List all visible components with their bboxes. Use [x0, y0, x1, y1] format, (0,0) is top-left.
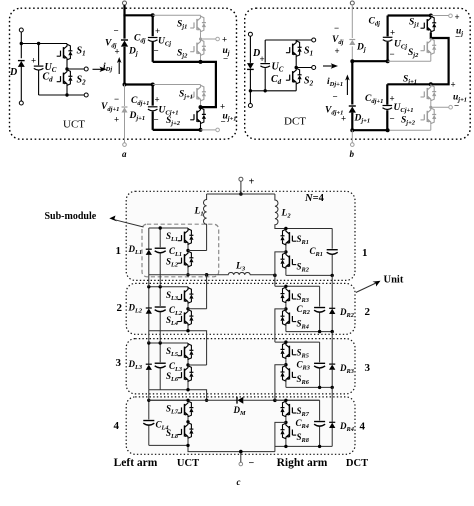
svg-text:b: b — [350, 149, 355, 159]
node L3 right — [273, 274, 277, 278]
wire SR6 emitter to bottom rail — [285, 382, 287, 388]
svg-text:+: + — [155, 95, 160, 105]
diode D (down) — [247, 63, 254, 69]
gray vertical with diode Dj+1 — [124, 85, 126, 143]
terminal circle midpoint — [312, 66, 316, 70]
wire inter-unit columns 1to2 — [149, 275, 160, 287]
svg-text:S1: S1 — [304, 46, 313, 58]
wire midpoint jog 1R — [275, 252, 286, 286]
svg-text:S2: S2 — [304, 76, 314, 88]
wire SR2 emitter to bottom rail — [285, 269, 287, 276]
thick bottom rail — [153, 129, 201, 131]
transistor S2 — [286, 68, 302, 85]
wire bottom rail 4L step to bus — [149, 445, 275, 451]
svg-text:−: − — [154, 46, 159, 56]
transistor SR5 — [280, 342, 296, 359]
transistor SR4 — [280, 309, 296, 326]
node midpoint 2L — [186, 307, 189, 310]
inductor L2 — [275, 194, 332, 229]
node dot — [386, 128, 390, 132]
terminal + (top) — [239, 177, 243, 181]
node midpoint 4R — [284, 421, 287, 424]
wire bottom rail 1L — [149, 275, 207, 309]
diode DL3 — [148, 343, 150, 390]
node chain on T4 rail — [273, 399, 277, 403]
thick vertical with diode Dj — [123, 5, 125, 84]
capacitor CR4 — [319, 400, 321, 446]
node dot — [151, 13, 155, 17]
wire T4 rail (left part) — [149, 399, 320, 401]
svg-text:Cd: Cd — [271, 74, 282, 86]
svg-text:Vdj: Vdj — [332, 35, 344, 46]
svg-text:Sj+1: Sj+1 — [179, 90, 193, 101]
transistor SR2 — [280, 252, 296, 269]
node Sj1 collector junction — [429, 14, 433, 18]
svg-text:−: − — [454, 101, 459, 111]
transistor Sj1 (black) — [421, 16, 437, 33]
DCT dashed block border — [245, 8, 471, 139]
terminal circle uj+1 (gray) — [216, 128, 220, 132]
svg-text:N=4: N=4 — [304, 193, 325, 204]
svg-text:4: 4 — [114, 420, 120, 432]
transistor SR8 — [280, 422, 296, 439]
transistor SL8 — [178, 422, 194, 439]
svg-text:1: 1 — [362, 247, 368, 259]
svg-text:−: − — [221, 117, 226, 127]
gray Sj2 emitter rail — [388, 55, 431, 61]
transistor Sj+1 (gray) — [190, 85, 206, 102]
transistor Sj+2 (black) — [190, 107, 206, 124]
bottom rail — [250, 90, 296, 92]
diode DM — [237, 397, 243, 404]
terminal circle midpoint — [84, 67, 88, 71]
capacitor Cdj branch thick — [152, 15, 154, 62]
svg-text:UCj: UCj — [158, 37, 171, 48]
svg-text:UC: UC — [272, 62, 284, 74]
node dot — [199, 128, 203, 132]
svg-text:Unit: Unit — [384, 275, 404, 286]
terminal circle uj — [449, 14, 453, 18]
node SL2 emitter on rail — [186, 273, 189, 276]
svg-text:+: + — [260, 54, 265, 64]
diode DL1 — [148, 228, 150, 275]
svg-text:UCT: UCT — [63, 119, 85, 131]
svg-text:−: − — [154, 115, 159, 125]
svg-text:Sub-module: Sub-module — [45, 211, 97, 222]
svg-text:+: + — [335, 46, 340, 56]
wire bottom rail 2R — [286, 331, 332, 333]
node SL emitter on rail — [186, 329, 189, 332]
wire bottom rail 1R — [286, 274, 332, 276]
gray Sj2 emitter to thick rail — [200, 56, 202, 61]
wire unit 3R top rail — [275, 341, 320, 343]
node midpoint 1L — [186, 249, 189, 252]
transistor SR1 — [280, 229, 296, 246]
diode Dj — [121, 40, 128, 47]
transistor SL1 — [178, 228, 194, 245]
wire inter-unit columns 2to3 — [149, 331, 160, 343]
thick drop with cap Cdj+1 — [386, 84, 388, 130]
svg-text:a: a — [122, 149, 127, 159]
svg-text:DCT: DCT — [346, 458, 368, 469]
node dot — [386, 59, 390, 63]
node dot on thick rail for Sj+1 — [429, 82, 433, 86]
wire SL4 emitter to bottom rail — [187, 326, 189, 331]
node dot — [199, 105, 203, 109]
svg-text:+: + — [115, 47, 120, 57]
svg-text:iDj: iDj — [103, 62, 112, 73]
svg-text:Sj+1: Sj+1 — [403, 75, 417, 86]
svg-text:Sj2: Sj2 — [408, 48, 419, 59]
thick lower-left rail — [125, 83, 153, 85]
node midpoint 4L — [186, 420, 189, 423]
inductor L1 — [204, 194, 207, 251]
wire midpoint rail 2L — [188, 308, 207, 310]
svg-text:+: + — [390, 28, 395, 38]
svg-text:Sj+2: Sj+2 — [401, 116, 416, 127]
wire unit 1R top rail — [275, 228, 332, 230]
wire unit 3L top rail — [149, 342, 188, 344]
svg-text:+: + — [249, 177, 255, 188]
wire bottom rail 3R — [286, 386, 332, 388]
diode Dj (gray) — [349, 40, 355, 46]
svg-text:UCT: UCT — [177, 458, 199, 469]
capacitor Cdj+1 branch thick — [152, 85, 154, 130]
gray Sj+2 emitter to rail — [388, 124, 431, 130]
svg-text:−: − — [334, 23, 339, 33]
node dot — [295, 66, 298, 69]
svg-text:+: + — [390, 94, 395, 104]
gray rail to Sj+1 — [153, 84, 201, 86]
gray stub to terminal b — [351, 130, 353, 143]
arrow to expanded cell — [93, 68, 104, 70]
thick riser with cap Cdj — [388, 16, 431, 62]
transistor Sj2 (gray) — [421, 38, 437, 55]
transistor SL5 — [178, 343, 194, 360]
diode D — [18, 61, 25, 67]
transistor SR7 — [280, 400, 296, 417]
wire SL3 emitter to midpoint — [187, 304, 189, 309]
svg-text:3: 3 — [116, 357, 122, 369]
transistor SL7 — [178, 400, 194, 417]
svg-text:S1: S1 — [77, 46, 86, 58]
thick rail mid-left — [352, 60, 387, 62]
inductor L3 — [207, 273, 275, 275]
gray vertical with diode Dj — [351, 5, 353, 61]
svg-text:2: 2 — [117, 302, 123, 314]
svg-text:+: + — [114, 115, 119, 125]
wire SR8 emitter to bottom rail — [285, 439, 287, 446]
svg-text:UCj+1: UCj+1 — [159, 106, 179, 117]
gray midpoint rail uj — [201, 32, 217, 39]
terminal circle top-left of UCT cell — [19, 28, 23, 32]
thick top rail — [123, 14, 152, 16]
wire SL6 emitter to bottom rail — [187, 382, 189, 390]
Sj+2 emitter to bottom rail — [200, 124, 202, 130]
unit 3 dashed box — [126, 339, 355, 394]
wire unit 1L top rail — [149, 227, 188, 229]
wire left vertical with diode D — [20, 32, 22, 101]
capacitor Cdj+1 — [383, 106, 393, 110]
transistor SL4 — [178, 309, 194, 326]
capacitor Cd branch — [38, 44, 40, 96]
wire midpoint 1L to L1 — [188, 250, 207, 252]
svg-text:2: 2 — [365, 306, 371, 318]
capacitor CR1 — [331, 229, 333, 276]
node dots unit 1L — [159, 226, 162, 229]
wire midpoint rail 3L — [188, 364, 207, 366]
wire SR1 emitter to midpoint — [285, 246, 287, 252]
svg-text:Sj+2: Sj+2 — [166, 116, 181, 127]
capacitor Cd — [260, 64, 270, 68]
svg-text:D: D — [9, 67, 17, 78]
terminal circle top — [350, 1, 354, 5]
svg-text:+: + — [220, 102, 225, 112]
wire SR7 emitter to midpoint — [285, 417, 287, 422]
node dot — [249, 89, 252, 92]
top rail — [265, 39, 312, 41]
diode Dj+1 (gray) — [121, 107, 127, 113]
svg-text:Left arm: Left arm — [114, 457, 158, 469]
diode Dj+1 (black) — [349, 106, 356, 113]
wire bottom rail 3L and chain down — [149, 390, 207, 401]
wire SL8 emitter to bottom rail — [187, 439, 189, 446]
terminal circle top — [123, 1, 127, 5]
wire SL2 emitter to bottom rail — [187, 268, 189, 275]
wire SL7 emitter to midpoint — [187, 417, 189, 422]
capacitor CR2 — [319, 286, 321, 331]
current arrow iDj+1 — [346, 79, 348, 96]
wire SL5 emitter to midpoint — [187, 360, 189, 365]
wire bottom rail 4R — [275, 445, 332, 447]
transistor SL3 — [178, 287, 194, 304]
node midpoint 2R — [284, 307, 287, 310]
diode DR2 — [331, 275, 333, 331]
thick path Sj1 emitter down right and around — [387, 33, 448, 85]
terminal - (bottom) — [239, 462, 243, 466]
transistor SL2 — [178, 251, 194, 268]
gray stub below to terminal a — [123, 143, 127, 147]
transistor S2 — [57, 69, 73, 86]
gray Sj+1 emitter to thick rail — [200, 102, 202, 107]
wire midpoint jog 2R — [275, 309, 286, 342]
node top rail junction — [239, 192, 243, 196]
midpoint rail — [296, 57, 312, 68]
transistor S1 — [286, 40, 302, 57]
wire unit 2R top rail — [275, 285, 320, 287]
capacitor CL1 — [159, 228, 161, 275]
sub-module dashed box — [142, 224, 219, 277]
UCT dashed block border — [10, 8, 237, 139]
wire SL1 emitter to midpoint — [187, 245, 189, 251]
svg-text:+: + — [155, 26, 160, 36]
thick Z path to lower cell — [153, 62, 216, 107]
left wire with diode D (down) — [249, 36, 251, 103]
diode DR3 — [331, 332, 333, 388]
terminal circle bottom-left — [248, 104, 252, 108]
thick vertical with diode Dj+1 — [351, 61, 353, 129]
S2 emitter to bottom rail — [295, 85, 297, 91]
capacitor CR3 — [319, 342, 321, 387]
transistor Sj2 (gray) — [190, 39, 206, 56]
wire bottom rail — [39, 94, 85, 96]
terminal circle top right — [312, 38, 316, 42]
node midpoint 3L — [186, 363, 189, 366]
svg-text:UCj: UCj — [394, 40, 407, 51]
svg-text:Cdj: Cdj — [369, 17, 381, 28]
transistor Sj1 (gray) — [190, 15, 206, 32]
capacitor CL2 — [159, 287, 161, 331]
svg-text:Dj+1: Dj+1 — [354, 114, 371, 125]
gray tail to uj+1 circle — [201, 129, 217, 131]
svg-text:−: − — [249, 458, 255, 469]
transistor S1 — [57, 44, 73, 61]
wire midpoint jog 4R — [275, 422, 286, 451]
transistor Sj+1 (gray) — [421, 84, 437, 101]
current arrow iDj — [118, 61, 120, 74]
diode DL2 — [148, 287, 150, 331]
wire unit 4R top rail — [275, 399, 320, 401]
svg-text:+: + — [451, 80, 456, 90]
gray rail to Sj1 — [153, 14, 201, 16]
capacitor Cdj+1 — [148, 107, 158, 111]
node SL7 collector on T4 rail — [186, 399, 189, 402]
svg-text:iDj+1: iDj+1 — [327, 77, 343, 88]
node dot — [37, 42, 40, 45]
node dots unit 3L — [159, 341, 162, 344]
terminal circle bottom-left — [19, 101, 23, 105]
wire top rail — [21, 43, 67, 45]
terminal circle uj (gray) — [216, 37, 220, 41]
svg-text:4: 4 — [360, 421, 366, 433]
capacitor Cdj — [148, 38, 158, 42]
svg-text:−: − — [114, 26, 119, 36]
svg-text:−: − — [390, 49, 395, 59]
capacitor CL3 — [159, 343, 161, 390]
node dot — [151, 83, 155, 87]
capacitor Cd branch — [264, 40, 266, 91]
gray rail to uj circle — [431, 15, 449, 17]
svg-text:Sj2: Sj2 — [177, 49, 188, 60]
wire unit 2L top rail — [149, 286, 188, 288]
wire unit 4L top rail — [149, 399, 188, 401]
svg-text:Dj: Dj — [356, 43, 366, 54]
wire inter-unit column 3to4 — [148, 390, 150, 401]
svg-text:c: c — [237, 477, 241, 487]
transistor SR3 — [280, 286, 296, 303]
node dot — [123, 83, 127, 87]
svg-text:UCj+1: UCj+1 — [394, 103, 414, 114]
node dot — [350, 59, 354, 63]
thick bottom rail — [352, 129, 387, 131]
terminal circle top-left of DCT cell — [248, 32, 252, 36]
terminal circle bottom rail — [84, 93, 88, 97]
node dot — [20, 42, 23, 45]
svg-text:Dj+1: Dj+1 — [129, 111, 146, 122]
arrow to expanded cell — [323, 65, 334, 67]
wire S2 emitter to bottom rail — [66, 86, 68, 95]
terminal circle uj+1 — [449, 105, 453, 109]
svg-text:3: 3 — [365, 362, 371, 374]
wire from + terminal — [240, 181, 242, 194]
svg-text:Right arm: Right arm — [277, 457, 328, 469]
wire SR5 emitter to midpoint — [285, 359, 287, 365]
svg-text:Cdj+1: Cdj+1 — [131, 96, 149, 107]
node dot — [65, 67, 68, 70]
capacitor Cd — [34, 66, 44, 70]
svg-text:+: + — [222, 35, 227, 45]
node L3 left — [205, 273, 209, 277]
svg-text:Dj: Dj — [128, 47, 138, 58]
svg-text:1: 1 — [116, 245, 122, 257]
svg-text:S2: S2 — [77, 75, 87, 87]
svg-text:Sj1: Sj1 — [409, 18, 419, 29]
unit 2 dashed box — [126, 283, 355, 334]
svg-text:+: + — [341, 114, 346, 124]
svg-text:Cdj+1: Cdj+1 — [365, 94, 383, 105]
svg-text:−: − — [455, 32, 460, 42]
capacitor Cdj — [383, 37, 393, 41]
node dot — [65, 93, 68, 96]
unit 1 dashed box — [126, 191, 355, 280]
transistor SL6 — [178, 365, 194, 382]
wire midpoint jog 3R — [275, 365, 286, 401]
unit 4 dashed box — [126, 397, 355, 454]
transistor SR6 — [280, 365, 296, 382]
wire top rail — [207, 193, 275, 195]
svg-text:−: − — [114, 94, 119, 104]
svg-text:DCT: DCT — [284, 116, 306, 128]
wire midpoint rail — [67, 61, 84, 70]
capacitor CL4 — [148, 400, 150, 445]
gray midpoint rail uj+1 — [431, 101, 449, 107]
diode DR4 — [331, 387, 333, 446]
node dot — [264, 89, 267, 92]
svg-text:Sj1: Sj1 — [177, 20, 187, 31]
node SL emitter on rail — [186, 388, 189, 391]
wire bottom rail 2L and chain down — [149, 331, 207, 365]
svg-text:+: + — [31, 56, 36, 66]
node dot — [350, 128, 354, 132]
node midpoint 1R — [284, 250, 287, 253]
svg-text:Cdj: Cdj — [134, 34, 146, 45]
wire SR4 emitter to bottom rail — [285, 326, 287, 332]
node dot — [199, 60, 203, 64]
node midpoint 3R — [284, 363, 287, 366]
svg-text:+: + — [455, 12, 460, 22]
svg-text:−: − — [390, 114, 395, 124]
transistor Sj+2 (gray) — [421, 107, 437, 124]
node dots unit 2L — [159, 285, 162, 288]
svg-text:−: − — [223, 54, 228, 64]
svg-text:−: − — [333, 92, 338, 102]
wire SR3 emitter to midpoint — [285, 303, 287, 309]
